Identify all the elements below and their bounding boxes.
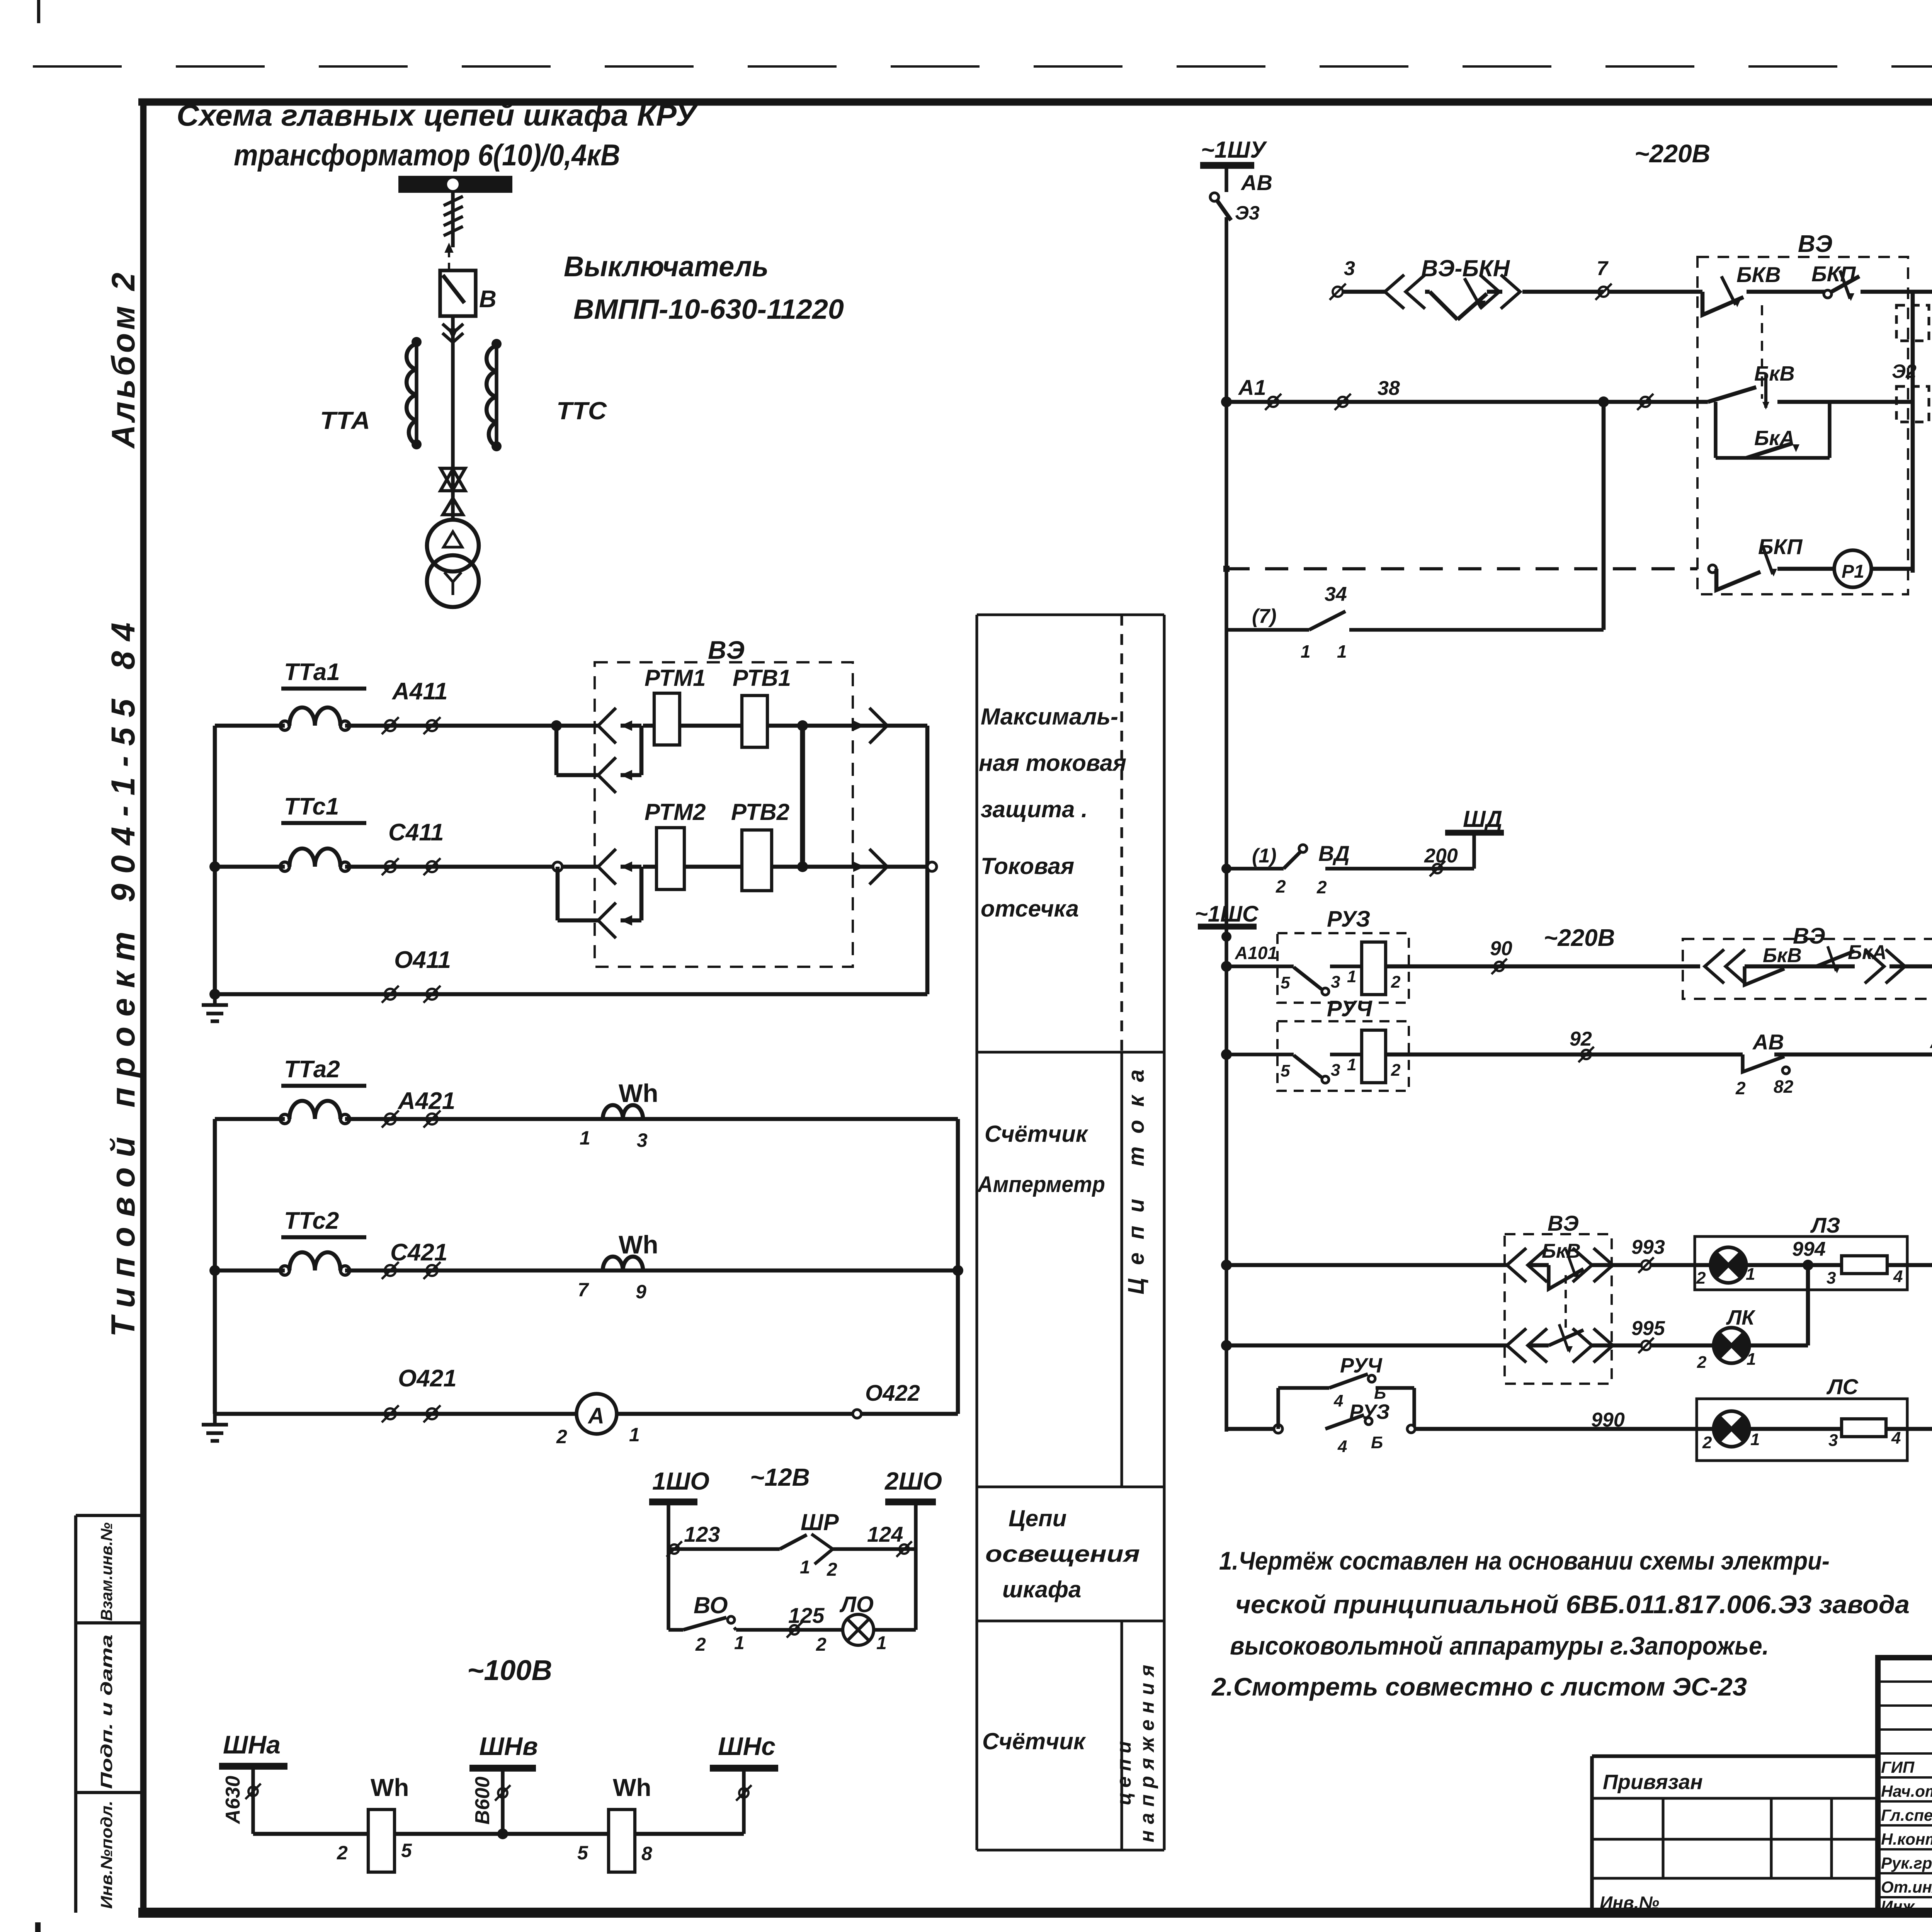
relay RTM1 xyxy=(654,693,680,745)
svg-text:38: 38 xyxy=(1378,377,1400,400)
svg-text:1: 1 xyxy=(1337,641,1347,662)
svg-text:ВЭ-БКН: ВЭ-БКН xyxy=(1421,255,1510,281)
ground (metering) xyxy=(213,1414,216,1425)
svg-text:4: 4 xyxy=(1333,1391,1343,1410)
svg-text:ТТс1: ТТс1 xyxy=(284,793,339,820)
svg-text:ВЭ: ВЭ xyxy=(1798,231,1832,257)
current transformer TTC (primary symbol) xyxy=(495,344,498,446)
svg-text:4: 4 xyxy=(1893,1267,1903,1286)
svg-text:высоковольтной аппаратуры г.: высоковольтной аппаратуры г.Запорожье. xyxy=(1230,1631,1769,1660)
svg-text:Выключатель: Выключатель xyxy=(564,250,769,282)
node on return at C411 xyxy=(927,862,937,871)
bus 2ShO bar xyxy=(885,1498,936,1505)
svg-text:(1): (1) xyxy=(1252,845,1277,867)
svg-text:ная токовая: ная токовая xyxy=(979,750,1126,776)
ammeter A xyxy=(577,1394,617,1434)
svg-text:4: 4 xyxy=(1337,1437,1347,1456)
svg-text:2: 2 xyxy=(1702,1433,1712,1452)
svg-text:1: 1 xyxy=(629,1424,640,1446)
svg-text:ВМПП-10-630-11220: ВМПП-10-630-11220 xyxy=(573,294,844,325)
wire RUZ row xyxy=(1226,964,1294,968)
svg-text:Привязан: Привязан xyxy=(1603,1770,1703,1794)
wire lamp LK row xyxy=(1226,1344,1507,1348)
svg-text:ЛК: ЛК xyxy=(1726,1306,1756,1329)
wire busbar to drawout xyxy=(451,193,454,247)
svg-text:2: 2 xyxy=(827,1560,837,1580)
wire O411 row xyxy=(215,992,927,997)
svg-text:5: 5 xyxy=(401,1840,412,1861)
svg-text:3: 3 xyxy=(1828,1431,1838,1450)
wire breaker to CT section xyxy=(451,316,454,522)
svg-text:трансформатор 6(10)/0,4кВ: трансформатор 6(10)/0,4кВ xyxy=(234,138,620,172)
wire closing circuit xyxy=(1342,290,1385,294)
wire aux contact 34 row xyxy=(1226,628,1309,631)
bus ShNa bar xyxy=(219,1763,287,1770)
privyazan box xyxy=(1590,1756,1594,1913)
resistor LS xyxy=(1842,1419,1886,1437)
junction C411 plug xyxy=(553,862,562,871)
svg-text:ВЭ: ВЭ xyxy=(1548,1211,1579,1235)
small triangle symbol xyxy=(443,498,463,515)
terminal 92 xyxy=(1582,1050,1591,1059)
title block left grid rows xyxy=(1878,1680,1932,1683)
arrow down with chevrons xyxy=(448,328,458,340)
svg-text:8: 8 xyxy=(641,1843,652,1864)
electromagnet coil (dashed) upper xyxy=(1896,305,1929,341)
svg-text:Счётчик: Счётчик xyxy=(985,1121,1088,1147)
svg-text:2: 2 xyxy=(816,1634,827,1655)
svg-text:АВ: АВ xyxy=(1752,1030,1784,1054)
CT TTc1 secondary xyxy=(280,862,289,871)
svg-text:ШНа: ШНа xyxy=(223,1730,281,1759)
svg-text:1: 1 xyxy=(1746,1265,1755,1284)
svg-text:1.Чертёж составлен на основ: 1.Чертёж составлен на основании схемы эл… xyxy=(1219,1546,1830,1575)
link 994 vertical xyxy=(1806,1265,1810,1345)
svg-text:4: 4 xyxy=(1891,1429,1901,1447)
frame left border xyxy=(140,99,147,1917)
svg-text:5: 5 xyxy=(1281,973,1290,992)
meter Wh1 (voltage) xyxy=(368,1810,395,1872)
svg-text:995: 995 xyxy=(1631,1317,1665,1340)
VE dashed box (lamps) xyxy=(1505,1234,1612,1384)
svg-text:ЛО: ЛО xyxy=(839,1592,874,1617)
svg-text:Максималь-: Максималь- xyxy=(981,704,1118,730)
svg-text:РУЗ: РУЗ xyxy=(1327,906,1370,932)
coil P1 (spring motor) xyxy=(1834,550,1871,587)
svg-text:1: 1 xyxy=(1747,1350,1756,1369)
svg-text:БкВ: БкВ xyxy=(1754,362,1795,385)
metering right vertical xyxy=(956,1119,960,1414)
wire C421 row xyxy=(215,1269,285,1273)
svg-text:Цепи тока: Цепи тока xyxy=(1124,1056,1149,1294)
RUCh coil xyxy=(1362,1030,1386,1083)
paper edge mark bottom-left xyxy=(35,1922,41,1932)
svg-text:РТМ1: РТМ1 xyxy=(645,665,706,691)
wire lamp LZ row xyxy=(1226,1263,1507,1267)
parallel RUCh/RUZ contacts xyxy=(1274,1425,1282,1433)
wire P1 to vertical xyxy=(1871,567,1913,571)
svg-text:125: 125 xyxy=(788,1603,825,1628)
tripping dashed wire (from protection) xyxy=(1226,567,1697,570)
svg-text:92: 92 xyxy=(1570,1028,1592,1050)
plug contacts out row2 xyxy=(869,849,887,884)
bus ShNv bar xyxy=(469,1765,536,1772)
svg-text:3: 3 xyxy=(637,1129,648,1151)
RUZ contact xyxy=(1294,967,1321,989)
svg-text:цепи: цепи xyxy=(1113,1736,1135,1805)
svg-text:2: 2 xyxy=(1276,876,1286,896)
terminal 38 xyxy=(1338,397,1348,407)
svg-text:АВ: АВ xyxy=(1240,170,1272,195)
svg-text:9: 9 xyxy=(636,1281,646,1303)
svg-text:отсечка: отсечка xyxy=(981,896,1079,922)
svg-text:1: 1 xyxy=(1750,1430,1760,1449)
relay RUZ dashed box xyxy=(1277,933,1409,1003)
wire ShNa down xyxy=(251,1766,255,1834)
svg-text:ШНс: ШНс xyxy=(718,1732,776,1760)
terminal mid xyxy=(1640,397,1650,407)
wire C411 row xyxy=(215,865,285,869)
svg-text:~100В: ~100В xyxy=(467,1654,552,1686)
svg-text:ШД: ШД xyxy=(1463,806,1502,832)
svg-text:ЛС: ЛС xyxy=(1826,1374,1859,1399)
wire tripping circuit xyxy=(1226,400,1708,404)
svg-text:О421: О421 xyxy=(398,1365,457,1392)
svg-text:3: 3 xyxy=(1331,1061,1340,1080)
svg-text:1: 1 xyxy=(876,1633,887,1653)
svg-text:В: В xyxy=(479,286,497,313)
meter Wh2 (voltage) xyxy=(609,1810,635,1872)
wire VO to lamp xyxy=(734,1628,736,1630)
svg-text:Счётчик: Счётчик xyxy=(982,1728,1086,1754)
mech link dashed (BKV) xyxy=(1761,305,1763,399)
svg-text:Инж.: Инж. xyxy=(1881,1897,1919,1915)
transformer 6(10)/0.4kV symbol xyxy=(427,520,479,571)
svg-text:Wh: Wh xyxy=(619,1230,658,1259)
svg-text:1: 1 xyxy=(1347,967,1356,986)
svg-text:Нач.отд: Нач.отд xyxy=(1881,1782,1932,1800)
drawout hatch marks xyxy=(444,196,463,206)
contact BkV (LK) xyxy=(1549,1330,1583,1345)
junction A411 plug xyxy=(551,720,562,731)
junction on tripping wire xyxy=(1598,396,1609,407)
relay unit VE dashed box xyxy=(595,662,853,967)
svg-text:124: 124 xyxy=(867,1522,903,1546)
svg-text:А411: А411 xyxy=(391,678,448,705)
svg-text:Wh: Wh xyxy=(371,1774,409,1801)
svg-text:О411: О411 xyxy=(394,947,451,973)
terminal A1 xyxy=(1268,397,1278,407)
svg-text:Р1: Р1 xyxy=(1842,561,1864,582)
svg-text:1: 1 xyxy=(1301,641,1311,662)
svg-text:Типовой проект 904-1-55 84: Типовой проект 904-1-55 84 xyxy=(105,612,142,1337)
svg-text:Цепи: Цепи xyxy=(1009,1505,1066,1531)
svg-text:О422: О422 xyxy=(865,1381,920,1406)
svg-text:2: 2 xyxy=(695,1634,706,1655)
switch ShR xyxy=(780,1535,807,1549)
resistor LZ xyxy=(1842,1256,1887,1274)
svg-text:Взам.инв.№: Взам.инв.№ xyxy=(97,1522,116,1621)
svg-text:~1ШУ: ~1ШУ xyxy=(1201,137,1267,163)
svg-text:РТМ2: РТМ2 xyxy=(645,799,706,825)
svg-text:Э3: Э3 xyxy=(1235,202,1260,224)
wire RUCh row xyxy=(1226,1053,1294,1056)
svg-text:Wh: Wh xyxy=(613,1774,651,1801)
svg-text:ТТс2: ТТс2 xyxy=(284,1207,339,1234)
svg-text:РУЧ: РУЧ xyxy=(1340,1354,1383,1377)
relay RUCh dashed box xyxy=(1277,1021,1409,1091)
bowtie link symbol xyxy=(440,468,465,490)
svg-text:Б: Б xyxy=(1371,1433,1383,1452)
svg-text:1: 1 xyxy=(580,1127,590,1149)
terminal marks A411 xyxy=(385,720,396,731)
terminal 124 xyxy=(900,1544,909,1554)
svg-text:ГИП: ГИП xyxy=(1881,1758,1915,1776)
paper edge mark top-left xyxy=(37,0,40,23)
svg-text:~12В: ~12В xyxy=(750,1463,810,1491)
svg-text:~220В: ~220В xyxy=(1544,925,1615,951)
svg-text:Э2: Э2 xyxy=(1892,361,1917,382)
svg-text:1: 1 xyxy=(734,1633,745,1653)
svg-text:РУЧ: РУЧ xyxy=(1327,996,1373,1021)
wire row ShR xyxy=(668,1547,780,1551)
breaker B blade xyxy=(443,275,464,303)
svg-text:993: 993 xyxy=(1631,1236,1665,1259)
wire ShNv down xyxy=(501,1768,504,1834)
terminal marks O421 xyxy=(385,1408,396,1419)
svg-text:Wh: Wh xyxy=(619,1079,658,1107)
svg-text:2: 2 xyxy=(1696,1269,1706,1287)
terminal marks C421 xyxy=(385,1265,396,1276)
svg-text:Инв.№: Инв.№ xyxy=(1600,1893,1659,1913)
svg-text:Амперметр: Амперметр xyxy=(977,1172,1105,1197)
plug contacts VE-BKN out xyxy=(1501,275,1520,309)
svg-text:ВО: ВО xyxy=(694,1592,728,1618)
node O422 xyxy=(853,1410,861,1418)
svg-text:Схема главных цепей шкафа: Схема главных цепей шкафа КРУ xyxy=(177,98,698,132)
svg-text:ТТА: ТТА xyxy=(320,406,370,434)
switch VO xyxy=(668,1628,683,1631)
junction 994 xyxy=(1803,1260,1813,1270)
drawout plug contacts row2 xyxy=(598,849,616,884)
sheet margin dash line (top) xyxy=(33,65,1932,68)
frame bottom border xyxy=(138,1908,1932,1918)
middle table borders xyxy=(975,615,978,1850)
svg-text:ВД: ВД xyxy=(1318,841,1350,866)
junction after RTV1 xyxy=(797,720,808,731)
svg-text:напряжения: напряжения xyxy=(1136,1659,1158,1842)
terminal 125 xyxy=(790,1625,799,1634)
plug out LZ xyxy=(1594,1248,1613,1282)
terminal 200 xyxy=(1433,864,1442,873)
svg-text:А109: А109 xyxy=(1930,1032,1932,1052)
svg-text:С421: С421 xyxy=(390,1239,447,1266)
CT TTa2 secondary xyxy=(280,1114,289,1124)
terminal ShNc xyxy=(739,1788,748,1798)
CT TTa1 secondary xyxy=(280,721,289,730)
current transformer TTA (primary symbol) xyxy=(415,342,418,444)
svg-text:А1: А1 xyxy=(1238,375,1266,400)
svg-text:Рук.гр.: Рук.гр. xyxy=(1881,1854,1932,1872)
meter Wh (phase C) xyxy=(603,1257,643,1270)
svg-text:Б: Б xyxy=(1374,1384,1386,1403)
VE dashed box (top) xyxy=(1697,257,1908,594)
svg-text:7: 7 xyxy=(1597,257,1609,280)
svg-text:Подп. и дата: Подп. и дата xyxy=(97,1634,116,1789)
svg-text:В600: В600 xyxy=(471,1777,494,1825)
wire lamp to 2ShO leg xyxy=(874,1628,916,1631)
svg-text:123: 123 xyxy=(684,1522,720,1546)
svg-text:Инв.№подл.: Инв.№подл. xyxy=(97,1801,116,1909)
plug contacts VE-BKN in xyxy=(1385,275,1404,309)
svg-text:ЛЗ: ЛЗ xyxy=(1810,1213,1840,1237)
svg-text:Альбом 2: Альбом 2 xyxy=(105,270,141,449)
svg-text:РТВ2: РТВ2 xyxy=(731,799,789,825)
RUZ coil xyxy=(1362,942,1386,995)
svg-text:РТВ1: РТВ1 xyxy=(733,665,791,691)
riser to ShD xyxy=(1472,835,1476,869)
terminal 7 xyxy=(1599,287,1609,297)
ground (protection CT) xyxy=(213,994,216,1005)
meter Wh (phase A) xyxy=(603,1105,643,1119)
svg-text:Н.контр.: Н.контр. xyxy=(1881,1830,1932,1848)
plug in LK xyxy=(1507,1328,1526,1362)
wire to coil P1 xyxy=(1777,567,1834,571)
busbar 6(10)kV xyxy=(398,176,512,193)
svg-text:БКВ: БКВ xyxy=(1736,262,1781,287)
voltage bus horizontal xyxy=(253,1832,744,1836)
link RTV1-RTV2 vertical xyxy=(800,726,805,867)
relay RTM2 xyxy=(656,828,684,889)
svg-text:Гл.спец: Гл.спец xyxy=(1881,1806,1932,1824)
terminal marks C411 xyxy=(385,861,396,872)
terminal A630 xyxy=(248,1787,258,1796)
relay RTV1 xyxy=(742,696,767,747)
svg-text:От.инж: От.инж xyxy=(1881,1878,1932,1896)
terminal 90 xyxy=(1495,962,1504,971)
breaker B box xyxy=(440,270,476,316)
svg-text:ШР: ШР xyxy=(801,1509,839,1535)
bus 1ShO bar xyxy=(649,1498,697,1505)
VE internal vertical xyxy=(1911,292,1915,573)
svg-text:1: 1 xyxy=(1347,1055,1356,1074)
svg-text:А: А xyxy=(587,1403,604,1429)
svg-text:ТТа1: ТТа1 xyxy=(284,659,340,685)
svg-text:2.Смотреть совместно с листо: 2.Смотреть совместно с листом ЭС-23 xyxy=(1211,1672,1747,1701)
svg-text:шкафа: шкафа xyxy=(1002,1577,1081,1602)
svg-text:БкВ: БкВ xyxy=(1763,944,1802,967)
plug in (signal) xyxy=(1705,949,1724,983)
bus ShD bar xyxy=(1445,830,1504,835)
svg-text:Токовая: Токовая xyxy=(981,853,1074,879)
wire lamp LS row xyxy=(1226,1427,1278,1431)
svg-text:~220В: ~220В xyxy=(1634,139,1710,168)
left stamp column border xyxy=(74,1515,77,1913)
CT TTc2 secondary xyxy=(280,1266,289,1275)
svg-text:82: 82 xyxy=(1774,1077,1794,1097)
svg-text:2: 2 xyxy=(337,1842,348,1864)
svg-text:7: 7 xyxy=(578,1279,589,1301)
terminal 3 (closing circuit) xyxy=(1333,287,1343,297)
wire 1ShO down xyxy=(667,1502,670,1630)
relay RTV2 xyxy=(742,830,772,891)
plug contacts out row1 xyxy=(869,708,887,743)
arrow up (racking direction) xyxy=(448,247,450,270)
svg-text:освещения: освещения xyxy=(985,1541,1140,1567)
svg-text:2: 2 xyxy=(1391,1061,1401,1080)
svg-text:994: 994 xyxy=(1792,1238,1826,1260)
lamp LS xyxy=(1714,1411,1749,1447)
wire O421 row xyxy=(215,1412,958,1416)
svg-text:3: 3 xyxy=(1344,257,1355,280)
bus ShNc bar xyxy=(710,1765,778,1772)
lamp block LZ box xyxy=(1695,1236,1907,1290)
svg-text:3: 3 xyxy=(1827,1269,1836,1287)
svg-text:2: 2 xyxy=(1391,973,1401,992)
plug in LZ xyxy=(1507,1248,1526,1282)
electromagnet coil (dashed) lower xyxy=(1896,386,1929,422)
left return vertical (protection) xyxy=(213,726,217,994)
frame top border xyxy=(138,99,1932,106)
return conductor right vertical xyxy=(925,726,930,994)
wire A411 row xyxy=(215,724,285,728)
lamp LO xyxy=(843,1614,874,1645)
contact VD xyxy=(1299,845,1307,852)
svg-text:(7): (7) xyxy=(1252,605,1277,628)
svg-text:5: 5 xyxy=(1281,1061,1290,1080)
terminal B600 xyxy=(498,1788,507,1798)
svg-text:1ШО: 1ШО xyxy=(652,1467,709,1495)
svg-text:А630: А630 xyxy=(222,1776,244,1825)
plug out (signal) xyxy=(1886,949,1905,983)
svg-text:ТТа2: ТТа2 xyxy=(284,1056,340,1083)
junction after RTV2 xyxy=(797,861,808,872)
wire VD row xyxy=(1226,867,1284,870)
svg-text:~1ШС: ~1ШС xyxy=(1195,901,1259,927)
svg-text:защита .: защита . xyxy=(981,796,1088,822)
junction ShNv xyxy=(497,1828,508,1839)
terminal marks O411 xyxy=(385,989,396,1000)
svg-text:990: 990 xyxy=(1591,1409,1625,1431)
terminal marks A421 xyxy=(385,1114,396,1124)
RUCh contact xyxy=(1294,1055,1321,1077)
VE dashed box (signal) xyxy=(1683,939,1932,999)
svg-text:ческой принципиальной 6ВБ.01: ческой принципиальной 6ВБ.011.817.006.Э3… xyxy=(1235,1590,1910,1619)
terminal 995 xyxy=(1641,1341,1651,1350)
title block outer box xyxy=(1878,1658,1932,1913)
drawout plug contacts row1 xyxy=(598,708,616,743)
wire 2ShO down xyxy=(914,1502,917,1630)
svg-text:ШНв: ШНв xyxy=(479,1732,538,1760)
svg-text:ВЭ: ВЭ xyxy=(708,636,745,664)
svg-text:С411: С411 xyxy=(388,819,444,846)
terminal on 123 wire xyxy=(670,1544,679,1554)
terminal 993 xyxy=(1641,1260,1651,1270)
svg-text:2: 2 xyxy=(1735,1078,1746,1098)
mech link dashed (lamps) xyxy=(1565,1275,1567,1332)
svg-text:90: 90 xyxy=(1490,937,1512,960)
svg-text:5: 5 xyxy=(577,1842,588,1864)
svg-text:А421: А421 xyxy=(397,1088,455,1114)
svg-text:А101: А101 xyxy=(1235,943,1277,963)
parallel contact BkA xyxy=(1714,402,1717,458)
wire ShNc down xyxy=(742,1768,745,1834)
lamp LK xyxy=(1714,1328,1749,1363)
wire A421 row xyxy=(215,1117,285,1121)
lamp block LS box xyxy=(1697,1399,1907,1461)
plug out LK xyxy=(1594,1328,1613,1362)
lamp LZ xyxy=(1711,1247,1746,1283)
